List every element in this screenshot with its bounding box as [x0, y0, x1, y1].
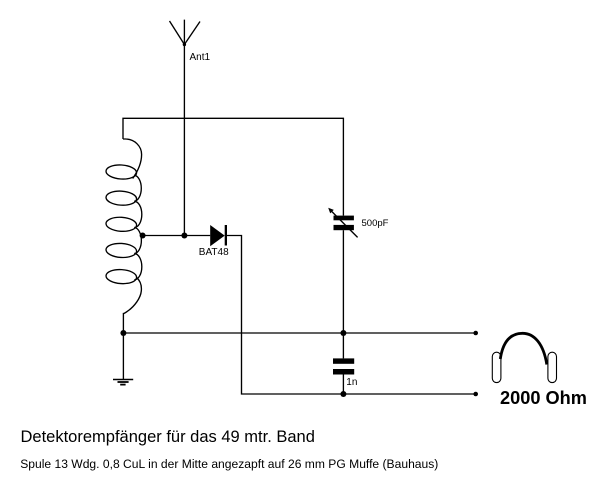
label 1n	[346, 377, 357, 388]
label Ant1	[190, 52, 211, 63]
wire tap to diode	[143, 235, 211, 237]
diode BAT48	[210, 225, 227, 246]
node C2 bottom	[340, 391, 346, 397]
caption line 2	[20, 457, 438, 471]
label 2000 Ohm	[500, 388, 587, 409]
terminal bottom	[473, 392, 478, 397]
node coil bottom	[120, 330, 126, 336]
inductor L1 coil	[106, 139, 142, 333]
label BAT48	[199, 247, 229, 258]
wire mid horizontal rail	[123, 332, 475, 334]
antenna Ant1	[170, 20, 201, 236]
variable capacitor C1 500pF	[328, 208, 357, 238]
wire diode to bottom rail	[227, 236, 476, 395]
node tap dot	[140, 233, 146, 239]
node antenna junction	[181, 233, 187, 239]
ground	[113, 333, 133, 385]
capacitor C2 1n	[333, 333, 354, 394]
wire C-var to bottom node	[342, 230, 344, 333]
headphones 2000 Ohm	[492, 333, 556, 382]
caption line 1	[21, 428, 315, 447]
node C-var bottom	[340, 330, 346, 336]
terminal top	[473, 331, 478, 336]
wire top horizontal from coil to C-var branch	[123, 118, 343, 215]
label 500pF	[362, 218, 389, 229]
